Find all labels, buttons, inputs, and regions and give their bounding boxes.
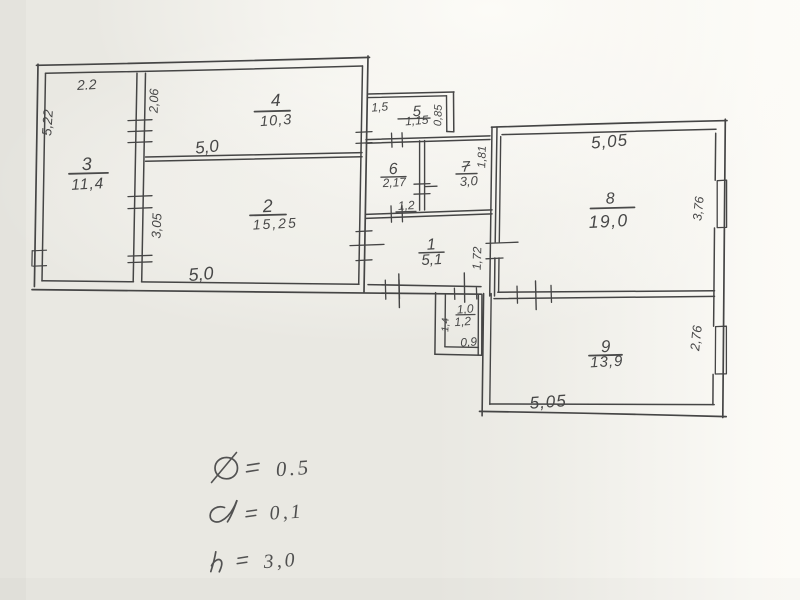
svg-text:10,3: 10,3: [260, 112, 293, 130]
door tick: wall 6|1 x402: [401, 206, 404, 222]
door tick: wall 1|8 y258: [486, 257, 503, 260]
wall: right outer rooms 8+9: [723, 119, 726, 417]
paper shading: left edge: [0, 0, 26, 600]
svg-text:0.5: 0.5: [275, 455, 312, 481]
wall: rooms 6|7 left line: [419, 141, 421, 210]
window pane: room 3 left wall: [31, 251, 33, 266]
svg-text:0,1: 0,1: [269, 500, 304, 524]
note h: script h stem: [211, 552, 216, 572]
room 2 number underline: [250, 214, 286, 217]
door tick: corridor bottom x385: [384, 280, 387, 299]
note d: script d loop: [210, 501, 237, 522]
paper shading: bottom edge: [0, 578, 800, 600]
wall: room 10 right inner: [477, 295, 479, 356]
door tick: wall 8|9 x517: [516, 286, 519, 303]
wall: room 5 right outer: [453, 92, 455, 132]
door leaf line: corridor bottom x399: [398, 274, 401, 308]
svg-text:1,81: 1,81: [476, 145, 489, 168]
svg-text:11,4: 11,4: [71, 175, 105, 194]
window tick: room 3 left wall top: [33, 249, 47, 252]
wall: rooms 6|7 right line: [424, 141, 426, 210]
door leaf line: room 10 top x464: [463, 273, 465, 302]
wall: room 5 right bottom cap: [447, 131, 454, 133]
svg-text:0,9: 0,9: [460, 334, 478, 349]
wall: room 10 inner left: [444, 294, 447, 347]
door tick: wall 3|4 y142: [128, 141, 152, 144]
wall: room 3 inner bottom: [42, 281, 134, 282]
wall: left block right outer line: [364, 56, 368, 292]
door tick: wall 3|4 y120: [128, 119, 152, 122]
door tick: wall 1|8 y243 long into room 8: [486, 242, 518, 243]
door tick: wall 3|2 y196: [128, 195, 152, 198]
door leaf line: wall 8|9 x535: [535, 281, 538, 310]
wall: left block outer top: [37, 57, 370, 65]
wall: rooms 3|4-2 right line: [142, 73, 146, 281]
door tick: wall 4|6 y143: [356, 142, 372, 145]
door tick: wall 5|6 x391: [391, 133, 394, 147]
svg-text:2,76: 2,76: [687, 324, 705, 352]
wall: room 8 inner top: [502, 129, 716, 134]
svg-text:2: 2: [261, 196, 273, 217]
room 8 number underline: [591, 207, 635, 208]
svg-text:5,22: 5,22: [39, 109, 56, 137]
wall: rooms 4|2 upper line: [146, 153, 363, 157]
svg-text:1,2: 1,2: [454, 314, 472, 329]
svg-text:1,4: 1,4: [440, 317, 451, 332]
wall: rooms 7-1|8 right line with door gap: [495, 127, 498, 296]
svg-text:2.2: 2.2: [76, 76, 97, 93]
svg-text:5,05: 5,05: [590, 130, 629, 152]
door tick: wall 6|7 into room 7: [425, 185, 437, 187]
note h: script h hook: [212, 560, 222, 572]
svg-text:2,06: 2,06: [147, 88, 162, 114]
room 5 number underline: [398, 117, 430, 120]
wall: room 10 inner bottom: [445, 346, 479, 349]
wall: room 9 outer left: [482, 294, 484, 416]
room 1 number underline: [419, 251, 444, 254]
wall: left block right inner line: [359, 66, 363, 284]
wall: rooms 6-7 top lower line: [366, 140, 490, 144]
wall: room 9 bottom outer: [480, 411, 727, 416]
svg-text:19,0: 19,0: [588, 210, 629, 232]
window tick: room 3 left wall bottom: [33, 265, 47, 268]
svg-text:3,76: 3,76: [690, 196, 706, 222]
note: equals sign line 1: [247, 463, 260, 471]
door tick: wall 8|9 x551: [550, 285, 553, 302]
svg-text:5,0: 5,0: [194, 136, 220, 157]
room 9 number underline: [589, 354, 622, 357]
wall: rooms 6-7 bottom lower line: [366, 214, 492, 219]
room 4 number underline: [255, 110, 291, 113]
door tick: wall 5|6 x402: [401, 133, 404, 147]
wall: left block inner top: [46, 66, 363, 73]
paper lighting: bright patch over plan interior: [0, 25, 770, 345]
svg-text:5,0: 5,0: [188, 263, 215, 285]
wall: room 10 outer bottom: [435, 354, 482, 355]
wall: room 9 inner right with window gap: [713, 296, 714, 405]
svg-text:3: 3: [81, 154, 92, 174]
window: room 9 right wall: [715, 326, 726, 374]
note D: slash through D: [212, 453, 237, 483]
svg-text:0,85: 0,85: [432, 104, 445, 127]
wall: room 8 bottom upper line: [498, 291, 715, 292]
svg-text:5,05: 5,05: [529, 391, 567, 413]
door tick: wall 2|1 y231: [356, 230, 372, 233]
wall: room 9 inner left: [490, 294, 491, 405]
door tick: wall 6|1 x391: [390, 206, 393, 222]
wall: room 10 right outer: [481, 295, 483, 356]
door tick: wall 3|2 y255: [128, 254, 152, 257]
wall: room 9 bottom inner: [490, 403, 714, 406]
wall: rooms 4|2 lower line: [146, 157, 363, 161]
door tick: wall 2|1 y260: [356, 259, 372, 262]
door tick: corridor bottom x399: [398, 280, 401, 299]
wall: room 8 inner left line with door gap: [499, 137, 501, 292]
room 3 number underline: [69, 172, 108, 175]
wall: room 8 inner right with window gap: [714, 133, 716, 296]
svg-text:8: 8: [605, 190, 615, 207]
svg-text:3,05: 3,05: [149, 212, 165, 239]
wall: room 5 right inner: [446, 96, 448, 132]
room 7 number underline: [456, 173, 477, 176]
svg-text:13,9: 13,9: [590, 353, 624, 372]
dim 1,0 underline: [456, 314, 475, 316]
svg-text:1,5: 1,5: [371, 99, 389, 114]
note: equals sign line 2: [246, 510, 257, 517]
note D: loop of script D: [215, 458, 238, 479]
room 7 number cross stroke: [462, 165, 470, 167]
door tick: room 10 top x454: [453, 288, 455, 299]
wall: room 2 inner bottom: [142, 282, 360, 284]
window: room 8 right wall: [717, 180, 726, 228]
wall: left block outer left: [34, 64, 38, 286]
svg-text:2,17: 2,17: [381, 175, 407, 190]
note: equals sign line 3: [237, 557, 247, 564]
svg-text:3,0: 3,0: [459, 173, 479, 189]
wall: rooms 6-7 top upper line: [366, 136, 490, 140]
wall: room 8 outer top: [492, 121, 728, 128]
paper lighting: bright right band: [430, 0, 800, 600]
wall: rooms 3|4-2 left line: [133, 73, 137, 281]
door tick long: wall 2|1 y245: [350, 244, 384, 245]
wall: room 5 top inner: [369, 96, 447, 98]
wall: room 10 outer left: [434, 293, 437, 355]
door tick: room 10 top x476: [475, 288, 477, 299]
door tick: wall 6|7 y194: [414, 193, 430, 196]
svg-text:1,15: 1,15: [405, 113, 430, 129]
wall: left block outer bottom full width: [32, 290, 482, 295]
dim 1,2 underline: [396, 210, 416, 213]
door tick: wall 3|2 y262: [128, 261, 152, 264]
door tick: wall 6|7 y184: [414, 183, 430, 186]
svg-text:1,72: 1,72: [470, 246, 485, 270]
wall: rooms 7-1|8 left line: [490, 127, 492, 296]
wall: room 5 top outer: [369, 92, 455, 94]
door tick: wall 3|2 y208: [128, 207, 152, 210]
door tick: wall 3|4 y131: [128, 130, 152, 133]
wall: left block inner left: [42, 73, 46, 281]
note d: script d tail: [228, 501, 237, 522]
svg-text:4: 4: [270, 90, 281, 110]
svg-text:3,0: 3,0: [262, 549, 298, 573]
svg-text:5,1: 5,1: [421, 251, 443, 269]
wall: rooms 6-7 bottom upper line: [366, 210, 492, 215]
wall: room 8 bottom lower line: [494, 296, 715, 298]
room 6 number underline: [381, 176, 406, 179]
svg-text:15,25: 15,25: [252, 214, 298, 232]
paper lighting: bright top-centre patch: [90, 0, 800, 220]
wall: room 1 corridor inner bottom: [368, 285, 481, 287]
svg-text:1,2: 1,2: [398, 198, 416, 213]
door tick: wall 4|6 y132: [356, 131, 372, 134]
